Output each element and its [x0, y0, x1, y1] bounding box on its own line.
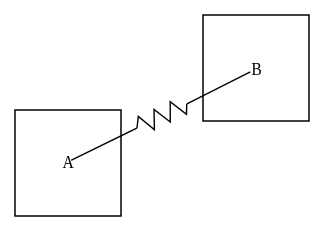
node B label: [252, 63, 261, 75]
wire from resistor to node B: [187, 72, 251, 104]
wire from node A to resistor: [71, 128, 137, 160]
node A label: [63, 156, 74, 168]
resistor zigzag: [137, 102, 187, 130]
square box around node A: [15, 110, 121, 216]
square box around node B: [203, 15, 309, 121]
